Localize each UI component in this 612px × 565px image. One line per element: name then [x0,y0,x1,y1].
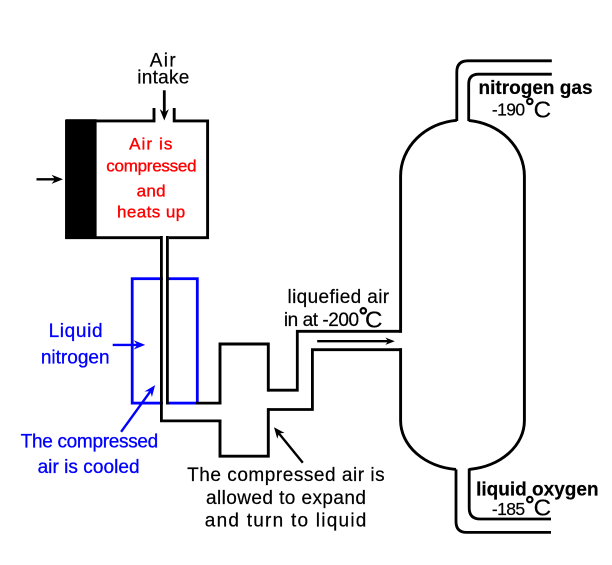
svg-text:allowed to expand: allowed to expand [206,488,366,509]
svg-text:Liquid: Liquid [49,321,104,342]
svg-text:C: C [365,307,383,333]
svg-text:in at -200: in at -200 [284,310,359,331]
svg-text:intake: intake [137,68,189,89]
svg-text:C: C [534,494,552,520]
svg-text:air is cooled: air is cooled [38,457,140,478]
svg-text:and turn to liquid: and turn to liquid [205,511,368,532]
svg-text:-185: -185 [492,499,525,519]
svg-text:and: and [137,181,166,200]
svg-text:liquefied air: liquefied air [288,287,390,308]
svg-text:The compressed: The compressed [21,431,158,452]
svg-text:compressed: compressed [106,157,196,176]
svg-text:nitrogen: nitrogen [41,348,110,369]
svg-text:C: C [534,96,552,122]
svg-text:heats up: heats up [117,203,186,222]
svg-text:-190: -190 [492,100,525,120]
svg-text:The compressed air is: The compressed air is [187,465,385,486]
svg-text:Air is: Air is [129,135,173,154]
